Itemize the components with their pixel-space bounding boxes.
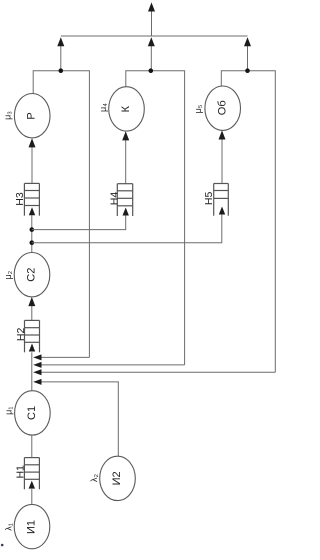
svg-text:μ₃: μ₃ bbox=[3, 111, 13, 120]
wire H3 to P with arrow bbox=[31, 147, 33, 184]
svg-text:Об: Об bbox=[216, 100, 228, 115]
queue H3 bbox=[24, 183, 39, 215]
svg-text:μ₂: μ₂ bbox=[3, 270, 13, 279]
svg-text:И1: И1 bbox=[26, 520, 38, 534]
service node Ob (ellipse) bbox=[205, 86, 241, 130]
wire riser Ob-branch with arrow bbox=[247, 46, 249, 71]
wire H4 to K with arrow bbox=[125, 140, 127, 184]
service node K (ellipse) bbox=[109, 87, 145, 131]
service node P (ellipse) bbox=[14, 94, 50, 138]
queue H4 bbox=[117, 184, 132, 216]
wire C2 to H3 bbox=[31, 215, 33, 253]
svg-text:К: К bbox=[120, 105, 132, 112]
stray mark (page artifact) bbox=[1, 544, 4, 547]
svg-text:Н5: Н5 bbox=[203, 192, 215, 206]
wire bracket group P bbox=[33, 71, 89, 358]
wire feedback from K-branch with arrow bbox=[41, 364, 185, 366]
svg-text:μ₄: μ₄ bbox=[98, 103, 108, 112]
wire feedback from Ob-branch with arrow bbox=[41, 371, 275, 373]
source node I2 (ellipse) bbox=[100, 456, 136, 500]
svg-text:С2: С2 bbox=[26, 268, 38, 282]
source node I1 (ellipse) bbox=[14, 504, 50, 548]
svg-text:И2: И2 bbox=[111, 471, 123, 485]
svg-text:μ₅: μ₅ bbox=[193, 104, 203, 113]
wire riser P-branch with arrow bbox=[60, 46, 62, 71]
queue H1 bbox=[24, 458, 39, 490]
wire H2 to C2 with arrow bbox=[31, 305, 33, 320]
wire branch to H5 bbox=[32, 215, 222, 243]
service node C2 (ellipse) bbox=[14, 253, 50, 297]
svg-text:С1: С1 bbox=[26, 406, 38, 420]
node dot branch to H5 bbox=[30, 240, 35, 245]
svg-text:Н2: Н2 bbox=[15, 328, 27, 342]
svg-text:λ₁: λ₁ bbox=[4, 523, 14, 531]
queue H5 bbox=[214, 184, 229, 216]
wire feedback from P-branch with arrow bbox=[41, 356, 89, 358]
svg-text:λ₂: λ₂ bbox=[89, 474, 99, 483]
node junction dot group P bbox=[59, 68, 64, 73]
svg-text:Н4: Н4 bbox=[108, 192, 120, 206]
queue H2 bbox=[25, 320, 40, 352]
node dot branch to H4 bbox=[30, 227, 35, 232]
node junction dot group Ob bbox=[245, 68, 250, 73]
svg-text:Р: Р bbox=[26, 112, 38, 119]
svg-text:Н1: Н1 bbox=[14, 465, 26, 479]
node junction dot group K bbox=[149, 68, 154, 73]
wire collector line bbox=[61, 35, 248, 37]
wire bracket group K bbox=[126, 71, 185, 365]
wire C1 to H1 bbox=[31, 435, 33, 457]
wire H2 input from C1 bbox=[31, 352, 33, 390]
wire branch to H4 bbox=[32, 216, 126, 230]
service node C1 (ellipse) bbox=[15, 391, 51, 435]
exit arrow (top output) bbox=[151, 11, 153, 37]
wire feedback from I2 with arrow bbox=[41, 382, 118, 456]
svg-text:μ₁: μ₁ bbox=[4, 407, 14, 415]
svg-text:Н3: Н3 bbox=[14, 192, 26, 206]
wire bracket group Ob bbox=[221, 71, 275, 373]
wire I1 to H1 bbox=[31, 489, 33, 505]
wire H5 to Ob with arrow bbox=[221, 139, 223, 184]
wire riser K-branch with arrow bbox=[150, 46, 152, 71]
